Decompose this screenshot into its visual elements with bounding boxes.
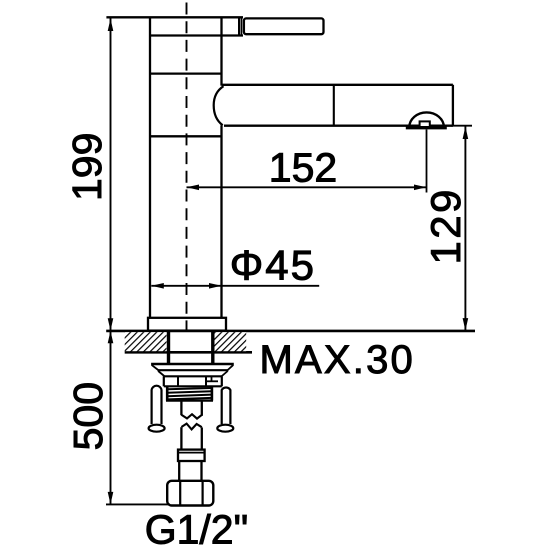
svg-text:199: 199 xyxy=(64,133,110,201)
svg-text:152: 152 xyxy=(269,144,337,190)
svg-text:Φ45: Φ45 xyxy=(230,241,316,288)
svg-text:MAX.30: MAX.30 xyxy=(260,338,416,382)
svg-text:G1/2": G1/2" xyxy=(145,507,248,550)
svg-text:500: 500 xyxy=(65,382,111,450)
svg-text:129: 129 xyxy=(422,187,469,264)
